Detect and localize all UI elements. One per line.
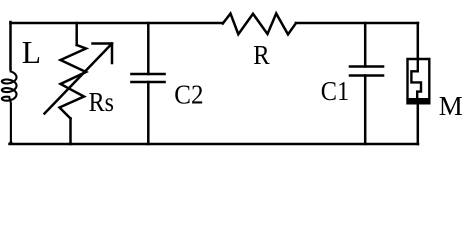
wire left edge upper — [9, 22, 12, 69]
wire M bottom stub — [417, 105, 420, 145]
label C2 — [174, 80, 203, 110]
wire bottom (ground return node) — [10, 143, 419, 146]
Rs arrow shaft — [45, 44, 113, 114]
label C1 — [321, 76, 349, 106]
label M — [439, 91, 463, 121]
capacitor C1 — [350, 67, 383, 76]
label R — [253, 40, 269, 70]
wire C2 top stub — [147, 23, 150, 74]
wire C2 bottom stub — [147, 82, 150, 144]
label Rs — [89, 87, 114, 117]
wire M top stub — [417, 23, 420, 59]
label L — [22, 35, 41, 70]
svg-text:L: L — [22, 35, 41, 70]
wire Rs top stub — [75, 23, 78, 45]
wire top right (node between R right, C1, M) — [296, 22, 418, 25]
svg-text:C2: C2 — [174, 80, 203, 110]
variable resistor Rs zigzag — [60, 45, 87, 119]
svg-text:C1: C1 — [321, 76, 349, 106]
capacitor C2 — [132, 74, 165, 82]
svg-text:M: M — [439, 91, 463, 121]
memristor M bottom electrode bar — [406, 98, 430, 105]
resistor R — [223, 14, 296, 35]
wire C1 top stub — [364, 23, 367, 67]
wire C1 bottom stub — [364, 76, 367, 145]
Rs arrow head — [93, 44, 113, 64]
wire top (node between L, Rs, C2, R left) — [11, 22, 223, 25]
wire Rs bottom stub — [69, 119, 72, 145]
svg-text:R: R — [253, 40, 269, 70]
memristor M internal meander — [411, 59, 421, 98]
wire left edge lower — [9, 142, 12, 145]
svg-text:Rs: Rs — [89, 87, 114, 117]
memristor M box — [408, 59, 430, 98]
inductor L — [2, 69, 17, 145]
